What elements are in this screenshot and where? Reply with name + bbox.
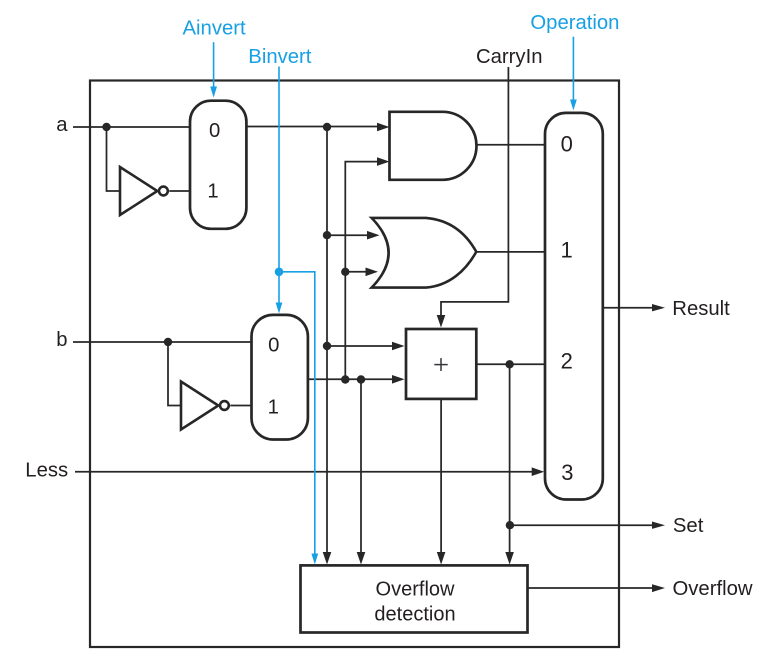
svg-text:Overflow: Overflow <box>376 579 455 601</box>
svg-text:Set: Set <box>673 515 704 537</box>
svg-text:Ainvert: Ainvert <box>183 18 246 40</box>
svg-text:3: 3 <box>561 460 573 485</box>
svg-text:b: b <box>56 329 67 351</box>
svg-text:Operation: Operation <box>530 12 619 34</box>
svg-text:Result: Result <box>672 298 730 320</box>
svg-text:1: 1 <box>207 181 218 203</box>
svg-text:Overflow: Overflow <box>673 578 753 600</box>
svg-text:0: 0 <box>268 335 279 357</box>
svg-text:a: a <box>56 114 68 136</box>
svg-text:Less: Less <box>25 460 68 482</box>
svg-text:1: 1 <box>268 397 279 419</box>
svg-text:0: 0 <box>561 132 573 157</box>
svg-text:2: 2 <box>561 348 573 373</box>
svg-text:CarryIn: CarryIn <box>476 46 543 68</box>
svg-text:0: 0 <box>209 120 220 142</box>
svg-text:Binvert: Binvert <box>248 46 311 68</box>
svg-text:detection: detection <box>374 604 455 626</box>
svg-text:1: 1 <box>560 237 572 262</box>
